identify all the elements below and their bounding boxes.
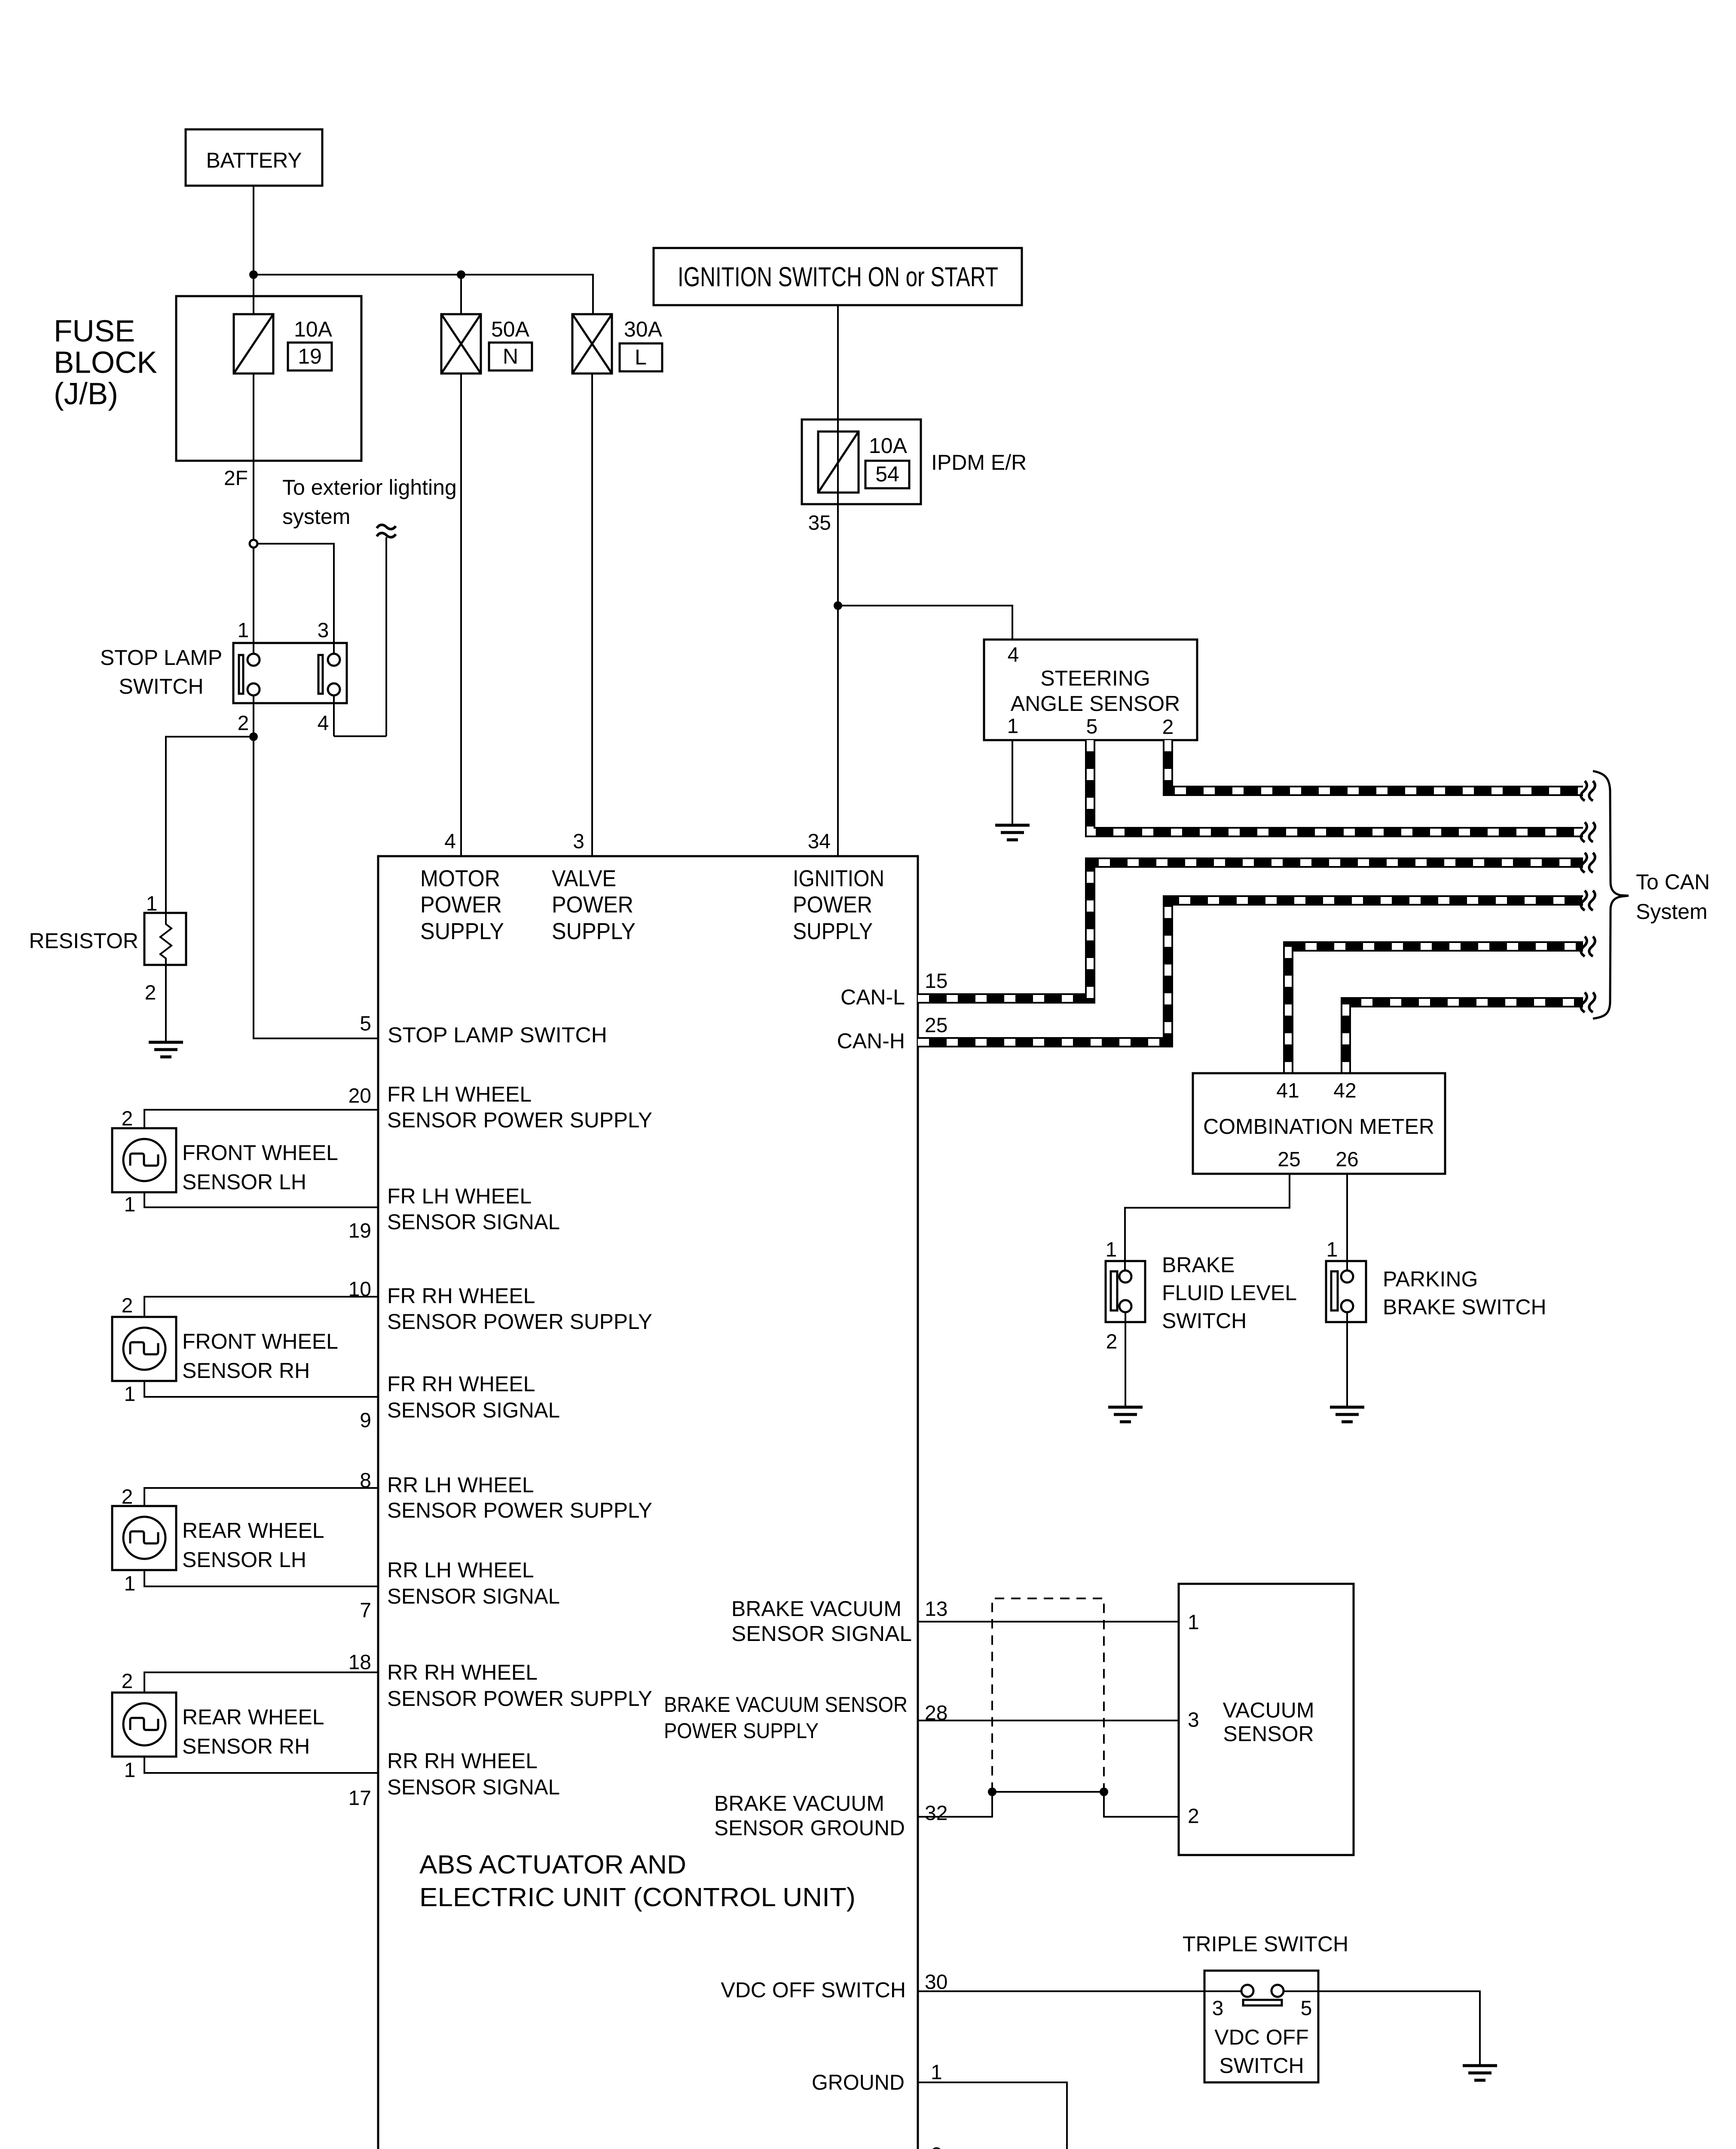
svg-text:1: 1 <box>1188 1611 1199 1634</box>
svg-text:2: 2 <box>1188 1805 1199 1828</box>
svg-text:2: 2 <box>122 1108 133 1130</box>
svg-text:System: System <box>1636 900 1708 924</box>
svg-text:ELECTRIC UNIT (CONTROL UNIT): ELECTRIC UNIT (CONTROL UNIT) <box>419 1883 856 1912</box>
svg-text:SENSOR SIGNAL: SENSOR SIGNAL <box>387 1210 560 1234</box>
svg-text:13: 13 <box>925 1598 947 1621</box>
svg-text:STEERING: STEERING <box>1040 666 1150 690</box>
svg-text:SENSOR GROUND: SENSOR GROUND <box>714 1816 905 1840</box>
svg-text:SENSOR RH: SENSOR RH <box>182 1359 310 1383</box>
svg-text:POWER SUPPLY: POWER SUPPLY <box>664 1719 819 1743</box>
svg-text:SUPPLY: SUPPLY <box>420 918 504 944</box>
svg-text:2F: 2F <box>224 467 248 490</box>
svg-text:FRONT WHEEL: FRONT WHEEL <box>182 1329 338 1353</box>
svg-text:IGNITION SWITCH ON or START: IGNITION SWITCH ON or START <box>678 261 998 292</box>
svg-text:1: 1 <box>1106 1239 1117 1261</box>
svg-text:POWER: POWER <box>420 892 502 918</box>
svg-text:9: 9 <box>360 1409 371 1432</box>
svg-text:SENSOR POWER SUPPLY: SENSOR POWER SUPPLY <box>387 1108 652 1132</box>
svg-text:FRONT WHEEL: FRONT WHEEL <box>182 1141 338 1165</box>
svg-text:SENSOR POWER SUPPLY: SENSOR POWER SUPPLY <box>387 1687 652 1711</box>
svg-text:3: 3 <box>573 830 584 853</box>
svg-text:RR LH WHEEL: RR LH WHEEL <box>387 1473 534 1497</box>
svg-text:ABS ACTUATOR AND: ABS ACTUATOR AND <box>419 1850 686 1879</box>
svg-text:ANGLE SENSOR: ANGLE SENSOR <box>1011 692 1180 716</box>
svg-text:COMBINATION METER: COMBINATION METER <box>1203 1114 1434 1139</box>
svg-text:SENSOR SIGNAL: SENSOR SIGNAL <box>387 1775 560 1799</box>
svg-text:SENSOR SIGNAL: SENSOR SIGNAL <box>731 1622 912 1646</box>
svg-text:IGNITION: IGNITION <box>793 866 884 891</box>
svg-text:PARKING: PARKING <box>1383 1267 1478 1291</box>
svg-text:CAN-L: CAN-L <box>840 985 905 1009</box>
svg-text:SWITCH: SWITCH <box>1219 2054 1304 2078</box>
svg-text:35: 35 <box>808 512 831 535</box>
svg-text:42: 42 <box>1333 1080 1356 1102</box>
svg-text:5: 5 <box>1086 716 1098 738</box>
svg-text:3: 3 <box>318 619 329 642</box>
svg-text:32: 32 <box>925 1802 947 1825</box>
svg-text:2: 2 <box>122 1295 133 1317</box>
svg-text:30: 30 <box>925 1971 947 1994</box>
svg-text:SWITCH: SWITCH <box>119 674 203 698</box>
svg-text:SENSOR POWER SUPPLY: SENSOR POWER SUPPLY <box>387 1310 652 1334</box>
svg-text:2: 2 <box>122 1670 133 1693</box>
svg-text:BRAKE VACUUM SENSOR: BRAKE VACUUM SENSOR <box>664 1693 908 1717</box>
svg-text:2: 2 <box>238 712 249 735</box>
svg-text:RESISTOR: RESISTOR <box>29 929 138 953</box>
svg-text:(J/B): (J/B) <box>54 377 118 411</box>
svg-text:REAR WHEEL: REAR WHEEL <box>182 1705 324 1729</box>
svg-text:19: 19 <box>348 1220 371 1243</box>
svg-text:VDC OFF: VDC OFF <box>1214 2025 1308 2049</box>
svg-text:L: L <box>635 345 647 369</box>
svg-text:20: 20 <box>348 1085 371 1108</box>
svg-text:41: 41 <box>1276 1080 1299 1102</box>
svg-text:54: 54 <box>875 462 899 486</box>
svg-text:RR LH WHEEL: RR LH WHEEL <box>387 1558 534 1582</box>
svg-text:SUPPLY: SUPPLY <box>552 918 636 944</box>
svg-text:2: 2 <box>145 982 156 1004</box>
svg-text:17: 17 <box>348 1787 371 1810</box>
svg-text:TRIPLE SWITCH: TRIPLE SWITCH <box>1183 1932 1348 1956</box>
svg-text:system: system <box>282 505 350 529</box>
svg-text:1: 1 <box>1007 715 1019 738</box>
svg-text:4: 4 <box>1008 644 1019 667</box>
svg-text:VDC OFF SWITCH: VDC OFF SWITCH <box>721 1978 906 2002</box>
svg-text:3: 3 <box>1188 1709 1199 1732</box>
svg-text:FLUID LEVEL: FLUID LEVEL <box>1162 1281 1297 1305</box>
svg-text:BRAKE: BRAKE <box>1162 1253 1235 1277</box>
svg-text:To CAN: To CAN <box>1636 870 1710 894</box>
svg-text:STOP LAMP SWITCH: STOP LAMP SWITCH <box>388 1023 607 1047</box>
svg-text:IPDM E/R: IPDM E/R <box>931 450 1027 474</box>
svg-text:25: 25 <box>1278 1148 1300 1171</box>
svg-text:50A: 50A <box>491 317 530 341</box>
svg-text:SENSOR: SENSOR <box>1223 1722 1314 1746</box>
svg-text:BATTERY: BATTERY <box>206 148 302 172</box>
svg-text:SENSOR LH: SENSOR LH <box>182 1170 306 1194</box>
svg-text:STOP LAMP: STOP LAMP <box>100 646 222 670</box>
svg-text:25: 25 <box>925 1014 947 1037</box>
svg-text:4: 4 <box>318 712 329 735</box>
svg-text:VALVE: VALVE <box>552 866 616 891</box>
svg-text:BRAKE SWITCH: BRAKE SWITCH <box>1383 1295 1547 1319</box>
svg-text:2: 2 <box>1162 716 1174 739</box>
svg-text:1: 1 <box>124 1573 136 1595</box>
svg-text:10A: 10A <box>294 317 333 341</box>
svg-text:FR RH WHEEL: FR RH WHEEL <box>387 1372 535 1396</box>
svg-text:34: 34 <box>808 830 831 853</box>
svg-text:VACUUM: VACUUM <box>1223 1698 1314 1722</box>
svg-text:30A: 30A <box>624 317 663 341</box>
svg-text:FUSE: FUSE <box>54 315 135 349</box>
svg-text:CAN-H: CAN-H <box>837 1029 905 1053</box>
svg-text:18: 18 <box>348 1651 371 1674</box>
svg-text:SENSOR LH: SENSOR LH <box>182 1548 306 1572</box>
svg-text:SUPPLY: SUPPLY <box>793 918 873 944</box>
svg-text:To exterior lighting: To exterior lighting <box>282 475 457 499</box>
svg-text:4: 4 <box>444 830 456 853</box>
svg-text:FR LH WHEEL: FR LH WHEEL <box>387 1184 532 1208</box>
svg-text:5: 5 <box>360 1013 371 1035</box>
svg-text:REAR WHEEL: REAR WHEEL <box>182 1518 324 1543</box>
svg-text:26: 26 <box>1336 1148 1358 1171</box>
svg-text:BRAKE VACUUM: BRAKE VACUUM <box>731 1597 902 1621</box>
svg-text:RR RH WHEEL: RR RH WHEEL <box>387 1660 538 1684</box>
svg-text:5: 5 <box>1301 1997 1312 2020</box>
svg-text:1: 1 <box>931 2061 942 2084</box>
svg-text:FR LH WHEEL: FR LH WHEEL <box>387 1082 532 1106</box>
svg-text:MOTOR: MOTOR <box>420 866 500 891</box>
svg-text:BLOCK: BLOCK <box>54 346 157 380</box>
svg-text:3: 3 <box>1212 1997 1224 2020</box>
svg-text:19: 19 <box>298 344 322 368</box>
svg-text:1: 1 <box>124 1194 136 1216</box>
svg-text:SENSOR RH: SENSOR RH <box>182 1734 310 1758</box>
svg-text:GROUND: GROUND <box>812 2070 905 2094</box>
svg-text:10A: 10A <box>869 434 908 458</box>
svg-text:FR RH WHEEL: FR RH WHEEL <box>387 1284 535 1308</box>
svg-text:SENSOR POWER SUPPLY: SENSOR POWER SUPPLY <box>387 1498 652 1522</box>
svg-text:SENSOR SIGNAL: SENSOR SIGNAL <box>387 1398 560 1422</box>
svg-text:BRAKE VACUUM: BRAKE VACUUM <box>714 1791 884 1815</box>
svg-text:SWITCH: SWITCH <box>1162 1309 1247 1333</box>
svg-text:POWER: POWER <box>793 892 872 918</box>
svg-text:RR RH WHEEL: RR RH WHEEL <box>387 1749 538 1773</box>
svg-text:SENSOR SIGNAL: SENSOR SIGNAL <box>387 1584 560 1608</box>
svg-text:POWER: POWER <box>552 892 633 918</box>
svg-text:N: N <box>503 344 518 368</box>
svg-text:2: 2 <box>931 2144 942 2149</box>
svg-text:15: 15 <box>925 970 947 993</box>
svg-text:2: 2 <box>122 1486 133 1509</box>
svg-text:1: 1 <box>238 619 249 642</box>
svg-text:1: 1 <box>124 1759 136 1782</box>
svg-text:1: 1 <box>1326 1239 1338 1261</box>
svg-text:1: 1 <box>124 1383 136 1406</box>
svg-text:2: 2 <box>1106 1331 1118 1353</box>
svg-text:7: 7 <box>360 1599 371 1622</box>
